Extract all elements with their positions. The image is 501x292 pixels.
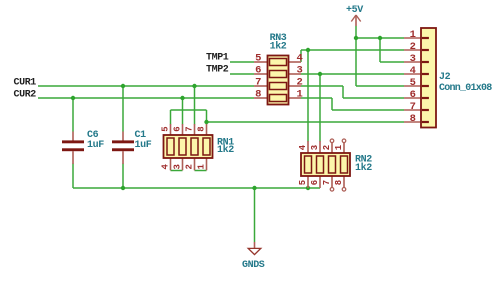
svg-text:3: 3 [297,65,303,77]
svg-text:6: 6 [310,180,320,185]
svg-text:8: 8 [410,113,416,125]
svg-text:7: 7 [255,77,261,89]
svg-text:7: 7 [322,180,332,185]
svg-text:1k2: 1k2 [270,41,287,53]
svg-text:6: 6 [173,127,183,132]
svg-text:5: 5 [298,180,308,185]
svg-text:3: 3 [310,145,320,150]
svg-text:1: 1 [410,29,416,41]
svg-text:CUR1: CUR1 [14,78,37,89]
svg-text:7: 7 [410,101,416,113]
svg-text:1uF: 1uF [87,140,104,151]
svg-text:2: 2 [322,145,332,150]
svg-text:1k2: 1k2 [355,162,372,174]
svg-text:8: 8 [255,89,261,101]
svg-text:+5V: +5V [346,5,363,16]
svg-text:J2: J2 [439,72,451,83]
svg-text:TMP2: TMP2 [206,65,229,76]
svg-text:CUR2: CUR2 [14,90,37,101]
svg-text:7: 7 [185,127,195,132]
svg-text:2: 2 [185,164,195,169]
svg-text:4: 4 [297,53,303,65]
svg-text:GNDS: GNDS [242,260,265,271]
svg-text:6: 6 [255,65,261,77]
svg-text:6: 6 [410,89,416,101]
svg-text:3: 3 [173,164,183,169]
svg-text:2: 2 [297,77,303,89]
svg-text:5: 5 [161,127,171,132]
svg-text:5: 5 [410,77,416,89]
svg-text:1: 1 [297,89,303,101]
svg-text:Conn_01x08: Conn_01x08 [439,83,492,94]
svg-text:2: 2 [410,41,416,53]
svg-text:8: 8 [197,127,207,132]
svg-text:1k2: 1k2 [217,144,234,156]
svg-text:TMP1: TMP1 [206,53,229,64]
svg-text:3: 3 [410,53,416,65]
svg-text:5: 5 [255,53,261,65]
svg-text:4: 4 [410,65,416,77]
svg-text:8: 8 [334,180,344,185]
svg-text:1uF: 1uF [135,140,152,151]
